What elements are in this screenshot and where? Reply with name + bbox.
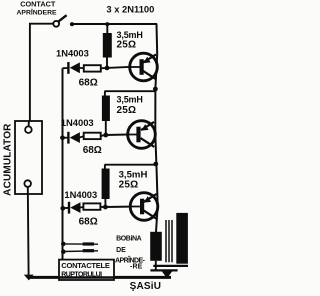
svg-text:CONTACTELE: CONTACTELE: [61, 261, 110, 270]
node chassis right junction: [162, 271, 173, 279]
wire feed row3: [104, 164, 157, 166]
svg-text:68Ω: 68Ω: [79, 78, 98, 89]
battery ACUMULATOR: [3, 121, 42, 196]
wire right rail: [155, 24, 157, 232]
label BOBINA DE APRINDE-RE: [115, 236, 146, 271]
bus vertical (diode anode bus): [62, 68, 64, 259]
wire feed row2: [104, 90, 155, 92]
wire R2 to Q2 base: [101, 135, 128, 136]
node base 3 junction: [103, 205, 108, 210]
diode D1: [67, 62, 84, 74]
choke L1 3,5mH 25Ω: [103, 33, 112, 58]
wire primary bottom stub: [155, 261, 157, 271]
label CONTACT APRINDERE: [17, 0, 57, 17]
wire top-left from battery rail to switch: [30, 24, 54, 127]
svg-text:1N4003: 1N4003: [64, 189, 97, 200]
wire stub to choke L3: [104, 165, 106, 169]
svg-text:3,5mH: 3,5mH: [117, 30, 143, 40]
node rail junction below Q2: [153, 162, 158, 167]
contact lower (ruptor): [63, 250, 98, 253]
diode D3: [68, 202, 84, 214]
wire L1 bottom to base node 1: [106, 58, 108, 69]
node contact lower junction: [61, 249, 66, 254]
wire bus to D3: [63, 207, 69, 209]
label box CONTACTELE RUPTORULUI: [59, 260, 114, 280]
svg-text:1N4003: 1N4003: [61, 117, 94, 128]
resistor R2 68Ω: [84, 133, 101, 139]
wire L3 bottom to base node 3: [104, 199, 106, 207]
node bus row3: [60, 206, 65, 211]
wire stub to choke L2: [104, 91, 106, 96]
resistor R3 68Ω: [83, 203, 100, 209]
svg-text:25Ω: 25Ω: [117, 105, 137, 116]
ignition coil primary winding: [150, 232, 162, 261]
svg-text:25Ω: 25Ω: [119, 179, 139, 190]
svg-text:-RE: -RE: [130, 263, 143, 270]
resistor R1 68Ω: [84, 65, 101, 71]
svg-text:ŞASiU: ŞASiU: [130, 281, 162, 292]
node choke L1 top on rail: [105, 22, 109, 26]
coil core lines: [166, 220, 172, 262]
choke L3 3,5mH 25Ω: [102, 169, 110, 200]
transistor Q1: [130, 53, 158, 81]
ignition coil secondary winding: [176, 213, 188, 264]
node bus row2: [60, 135, 65, 140]
node contact upper junction: [61, 242, 66, 247]
wire top rail: [72, 23, 157, 25]
wire row1 bus corner to diode D1: [63, 67, 69, 69]
svg-text:ACUMULATOR: ACUMULATOR: [3, 123, 14, 196]
svg-text:3 x 2N1100: 3 x 2N1100: [106, 4, 154, 15]
wire chassis bottom rail: [29, 276, 172, 279]
node base 2 junction: [103, 133, 108, 138]
node rail junction below Q1: [153, 87, 158, 92]
wire bus to D2: [63, 137, 69, 139]
svg-text:68Ω: 68Ω: [83, 145, 102, 156]
svg-text:68Ω: 68Ω: [79, 217, 98, 228]
svg-text:APRÎNDERE: APRÎNDERE: [17, 8, 57, 17]
svg-text:CONTACT: CONTACT: [20, 0, 56, 9]
wire L2 bottom to base node 2: [105, 121, 107, 135]
wire R3 to Q3 base: [100, 206, 130, 208]
wire coil bottom connector A: [153, 265, 188, 267]
svg-text:1N4003: 1N4003: [56, 48, 89, 59]
wire coil bottom connector B: [150, 269, 177, 271]
wire R1 to Q1 base: [101, 67, 130, 68]
switch S1: [53, 15, 74, 27]
choke L2 3,5mH 25Ω: [102, 96, 110, 122]
wire chassis bottom rail: [29, 276, 172, 279]
svg-text:3,5mH: 3,5mH: [117, 94, 143, 104]
transistor Q2: [128, 121, 156, 149]
svg-text:DE: DE: [116, 247, 126, 254]
wire stub rail to L1: [106, 24, 108, 34]
diode D2: [67, 132, 84, 144]
wire battery minus down to chassis rail: [27, 187, 30, 276]
transistor Q3: [130, 193, 158, 221]
svg-text:BOBiNA: BOBiNA: [116, 236, 142, 243]
node base 1 junction: [105, 66, 110, 71]
node chassis left junction: [24, 275, 34, 281]
svg-text:25Ω: 25Ω: [117, 40, 137, 51]
contact upper (ruptor): [63, 243, 98, 245]
